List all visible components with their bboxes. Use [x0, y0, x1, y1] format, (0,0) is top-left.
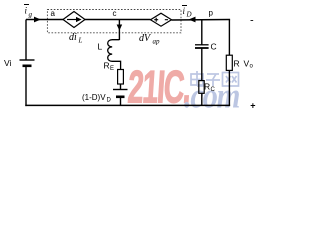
svg-text:R: R	[104, 61, 110, 71]
svg-text:g: g	[29, 11, 33, 19]
svg-text:di: di	[69, 32, 77, 43]
wire R_E to battery	[120, 84, 122, 90]
label (1-D)V_D	[82, 93, 112, 104]
svg-text:p: p	[209, 9, 214, 18]
wire R_C to bottom rail	[201, 93, 203, 105]
resistor R_E	[118, 70, 124, 85]
arrowhead inductor current	[117, 25, 123, 31]
battery (1-D)V_D	[113, 90, 128, 97]
dependent voltage source dV_ap (diamond)	[151, 13, 172, 26]
svg-text:R: R	[204, 82, 210, 92]
label R V_o	[234, 59, 254, 70]
svg-text:(1-D)V: (1-D)V	[82, 93, 106, 102]
svg-text:Vi: Vi	[4, 58, 12, 68]
svg-text:E: E	[110, 66, 114, 72]
svg-text:L: L	[98, 42, 103, 52]
svg-text:dV: dV	[139, 33, 152, 44]
svg-text:+: +	[250, 101, 255, 111]
wire left rail lower	[25, 66, 27, 106]
wire left rail upper	[25, 20, 27, 61]
svg-text:a: a	[51, 9, 56, 18]
arrowhead i_D current direction	[189, 17, 196, 23]
svg-text:.com: .com	[184, 76, 240, 114]
wire R load to bottom rail	[228, 70, 230, 106]
wire node c vertical	[118, 20, 120, 41]
svg-text:R: R	[234, 59, 240, 69]
label R_E	[104, 61, 115, 73]
watermark blue chinese glyphs	[191, 71, 239, 86]
svg-text:D: D	[107, 98, 112, 104]
label i_g	[24, 5, 33, 19]
svg-text:C: C	[211, 87, 216, 93]
wire between sources	[85, 19, 151, 21]
wire capacitor to R_C	[201, 49, 203, 81]
label dI_L	[69, 32, 83, 45]
watermark 21IC pink text	[126, 62, 191, 114]
svg-text:C: C	[211, 42, 217, 52]
svg-text:D: D	[186, 11, 192, 19]
label i_D	[182, 6, 192, 19]
wire top left segment	[26, 19, 63, 21]
battery Vi	[20, 60, 35, 66]
resistor R load	[226, 55, 232, 70]
inductor L	[108, 40, 121, 70]
arrowhead i_g current direction	[34, 17, 41, 23]
dashed box (PWM switch cell)	[47, 10, 181, 33]
svg-text:c: c	[113, 9, 117, 18]
label dV_ap	[139, 33, 160, 46]
label R_C	[204, 82, 216, 94]
resistor R_C	[199, 81, 204, 94]
wire top right segment	[172, 19, 231, 22]
svg-text:-: -	[250, 15, 254, 27]
svg-text:L: L	[78, 37, 83, 45]
wire battery to bottom rail	[120, 97, 122, 106]
dependent current source dI_L (diamond)	[63, 12, 85, 28]
capacitor C	[195, 45, 209, 48]
svg-text:ap: ap	[153, 38, 161, 46]
wire p to R load	[228, 20, 230, 56]
wire p to capacitor	[201, 20, 203, 45]
wire bottom rail	[25, 104, 230, 106]
